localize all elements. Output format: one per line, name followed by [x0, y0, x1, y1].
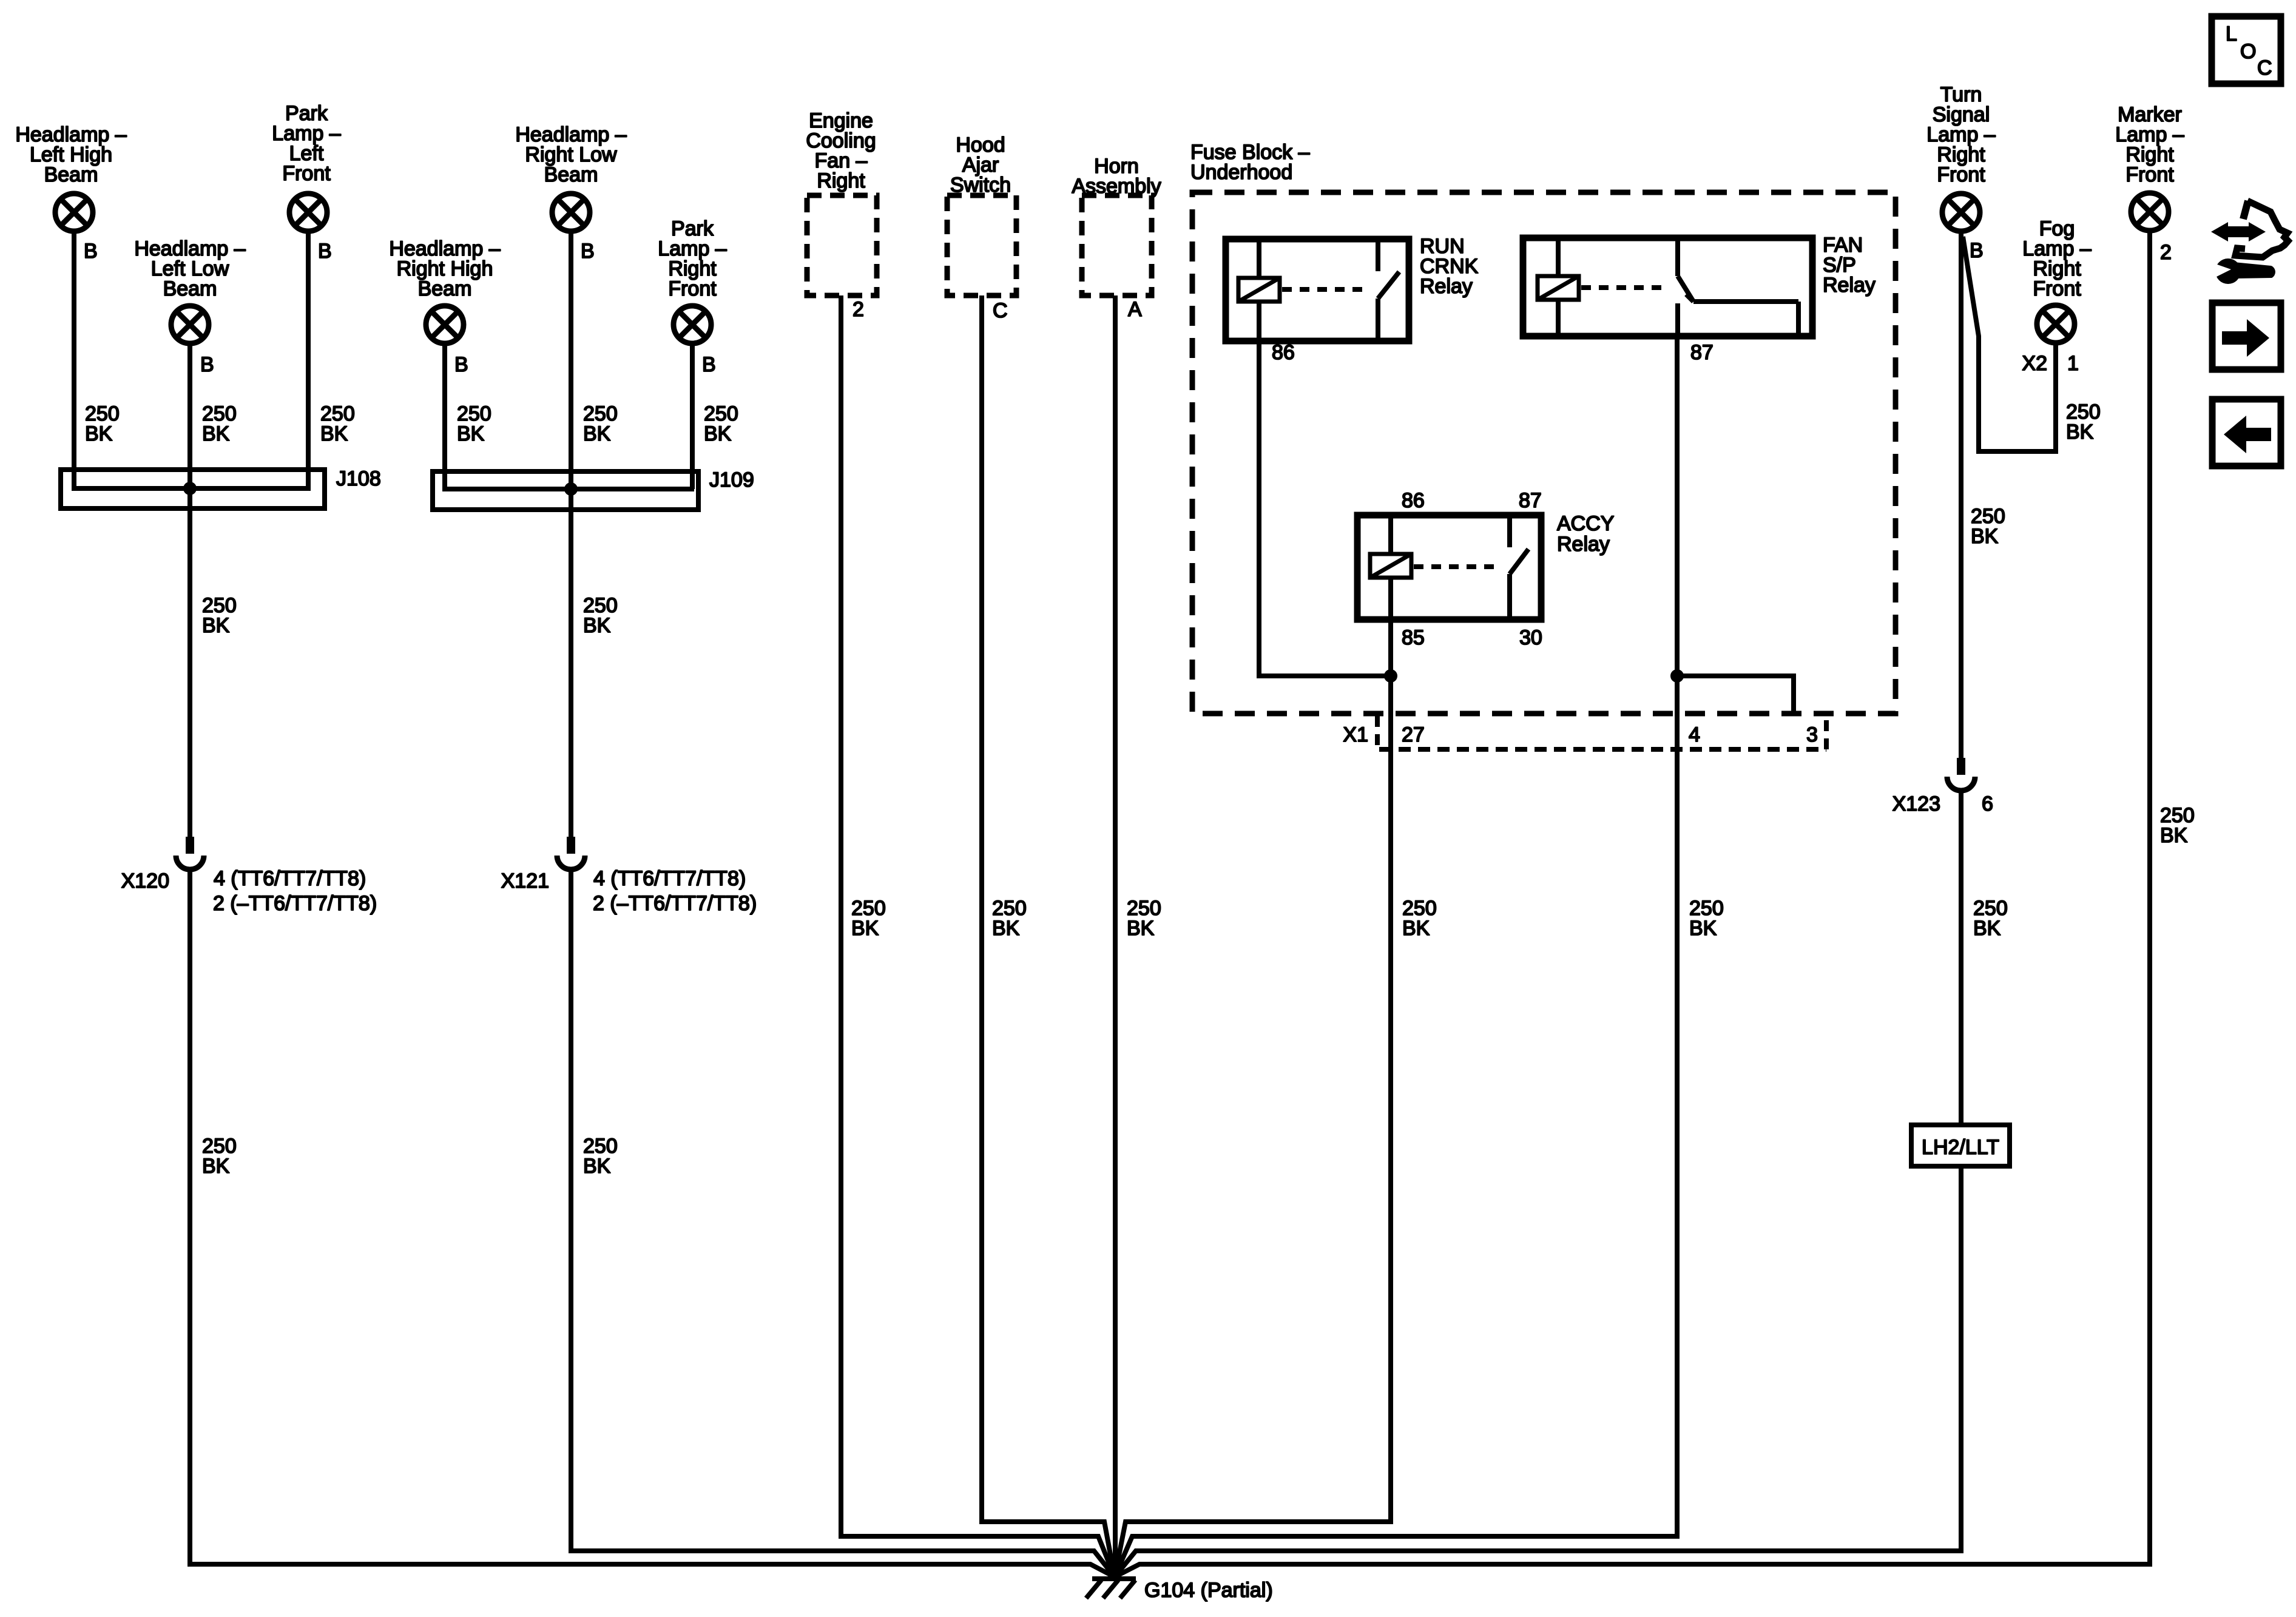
component box: Engine Cooling Fan - Right [806, 109, 877, 295]
wire: fog branch from pin B [1963, 237, 2056, 451]
connector X121 [501, 837, 585, 893]
svg-text:Right: Right [817, 169, 865, 192]
svg-text:6: 6 [1982, 792, 1993, 815]
pin B of Headlamp - Right High Beam [454, 353, 468, 376]
wire: J108 to connector X120 [187, 488, 192, 837]
wire: Headlamp LH-beam to J108 [72, 231, 76, 488]
svg-text:BK: BK [583, 1155, 611, 1178]
svg-text:BK: BK [1127, 917, 1155, 940]
wire: branch to X1 pin 3 [1677, 676, 1794, 714]
connector X1 (dashed) [1343, 716, 1826, 749]
svg-text:2: 2 [853, 298, 864, 321]
wire label 250 BK (horn) [1127, 897, 1161, 940]
svg-text:B: B [1970, 239, 1984, 262]
wire: Horn Assembly to ground G104 [1113, 295, 1118, 1577]
svg-text:Front: Front [668, 277, 717, 300]
svg-text:Front: Front [2033, 277, 2081, 300]
relay: ACCY Relay [1357, 512, 1614, 619]
wire: X123 to LH2/LLT option box [1959, 792, 1963, 1125]
pin C of Hood Ajar Switch [993, 299, 1008, 322]
svg-text:Beam: Beam [44, 163, 98, 186]
pin B of Headlamp - Left Low Beam [200, 353, 214, 376]
wire label 250 BK (HL-RL) [583, 402, 618, 445]
lamp: Park Lamp - Left Front [272, 102, 340, 231]
pin 4 of X1 [1689, 723, 1700, 746]
svg-text:BK: BK [583, 614, 611, 637]
lamp: Headlamp - Left High Beam [15, 123, 126, 231]
wire label 250 BK (X1-4) [1689, 897, 1724, 940]
svg-text:Relay: Relay [1823, 274, 1876, 297]
svg-text:Assembly: Assembly [1072, 175, 1161, 198]
svg-text:BK: BK [704, 422, 732, 445]
svg-text:L: L [2226, 22, 2237, 46]
lamp: Fog Lamp - Right Front [2022, 217, 2091, 343]
wire: Park Lamp RF to J109 [690, 343, 695, 489]
svg-text:BK: BK [851, 917, 879, 940]
svg-text:1: 1 [2067, 352, 2079, 375]
connector X120 [121, 837, 204, 893]
connector X123 [1893, 758, 1975, 815]
wire: Turn Signal Lamp pin B to connector X123 [1959, 231, 1963, 758]
wire: Headlamp RH-beam to J109 [442, 343, 447, 489]
svg-text:2 (–TT6/TT7/TT8): 2 (–TT6/TT7/TT8) [593, 892, 757, 915]
svg-text:B: B [318, 240, 332, 263]
wire: X121 to ground G104 [571, 868, 1115, 1577]
lamp: Headlamp - Right High Beam [389, 237, 500, 343]
svg-text:Front: Front [1937, 163, 1985, 186]
svg-text:BK: BK [1689, 917, 1717, 940]
connector X121 pin annotation [593, 867, 757, 915]
junction dot ACCY-85/RUN-86 node [1384, 669, 1397, 683]
pin 30 of ACCY Relay [1519, 626, 1542, 649]
svg-text:BK: BK [202, 1155, 230, 1178]
wire: ACCY pin 85 to node [1388, 619, 1393, 676]
wire label 250 BK (engine fan) [851, 897, 886, 940]
component box: Fuse Block - Underhood (dashed outline) [1190, 141, 1896, 714]
pin B of Park Lamp - Left Front [318, 240, 332, 263]
lamp: Park Lamp - Right Front [658, 217, 726, 343]
svg-text:Switch: Switch [950, 174, 1011, 197]
connector X2 pin 1 of Fog Lamp [2022, 352, 2079, 375]
wire label 250 BK (J109 out upper) [583, 594, 618, 637]
svg-text:X1: X1 [1343, 723, 1368, 746]
svg-text:BK: BK [457, 422, 485, 445]
svg-text:BK: BK [2160, 824, 2188, 847]
wire label 250 BK (J109 out lower) [583, 1135, 618, 1178]
wire label 250 BK (turn upper) [1971, 505, 2005, 548]
svg-text:4 (TT6/TT7/TT8): 4 (TT6/TT7/TT8) [593, 867, 746, 890]
splice J108 [61, 467, 381, 508]
svg-text:A: A [1128, 298, 1142, 321]
splice J109 [433, 468, 754, 510]
wire: Park Lamp LF to J108 [306, 231, 311, 488]
svg-text:LH2/LLT: LH2/LLT [1922, 1136, 1999, 1159]
svg-text:X123: X123 [1893, 792, 1940, 815]
wire label 250 BK (HL-RH) [457, 402, 491, 445]
svg-text:4: 4 [1689, 723, 1700, 746]
wire label 250 BK (X1-27) [1402, 897, 1437, 940]
wire: J109 to connector X121 [569, 489, 573, 837]
svg-text:Underhood: Underhood [1190, 161, 1292, 184]
legend: forward arrow box [2212, 303, 2281, 370]
pin B of Turn Signal Lamp - Right Front [1970, 239, 1984, 262]
junction dot on FAN S/P pin-87 wire [1670, 669, 1684, 683]
svg-text:B: B [702, 353, 716, 376]
wire label 250 BK (J108 out lower) [202, 1135, 237, 1178]
lamp: Headlamp - Right Low Beam [515, 123, 626, 231]
lamp: Turn Signal Lamp - Right Front [1926, 83, 1995, 231]
wire: Headlamp RL-beam to J109 [569, 231, 573, 489]
wire label 250 BK (PL-LF) [320, 402, 355, 445]
svg-text:BK: BK [992, 917, 1020, 940]
wire: X1 pin 4 to ground G104 [1115, 676, 1677, 1577]
pin 27 of X1 [1402, 723, 1425, 746]
wire label 250 BK (hood ajar) [992, 897, 1027, 940]
svg-text:Beam: Beam [418, 277, 472, 300]
pin 3 of X1 [1806, 723, 1818, 746]
pin B of Park Lamp - Right Front [702, 353, 716, 376]
svg-text:BK: BK [2066, 420, 2094, 444]
svg-text:BK: BK [320, 422, 348, 445]
wire: Headlamp LL-beam to J108 [187, 343, 192, 488]
option box LH2/LLT [1911, 1125, 2010, 1166]
wire label 250 BK (HL-LL) [202, 402, 237, 445]
svg-text:BK: BK [85, 422, 113, 445]
wire: Marker Lamp pin 2 to ground G104 [1115, 231, 2150, 1577]
svg-text:Front: Front [282, 162, 331, 185]
svg-text:Front: Front [2125, 163, 2174, 186]
svg-text:X121: X121 [501, 869, 549, 893]
svg-text:C: C [993, 299, 1008, 322]
pin A of Horn Assembly [1128, 298, 1142, 321]
junction dot J109 [564, 482, 578, 496]
wire label 250 BK (PL-RF) [704, 402, 738, 445]
lamp: Headlamp - Left Low Beam [134, 237, 245, 343]
pin B of Headlamp - Right Low Beam [581, 240, 595, 263]
svg-text:85: 85 [1402, 626, 1425, 649]
svg-text:C: C [2257, 56, 2272, 79]
pin 86 of ACCY Relay [1402, 489, 1425, 512]
relay: FAN S/P Relay [1523, 234, 1876, 336]
wire: X1 pin 27 to ground G104 [1115, 676, 1391, 1577]
svg-text:O: O [2240, 40, 2256, 63]
pin 87 of FAN S/P Relay [1690, 341, 1714, 364]
svg-text:BK: BK [1971, 525, 1999, 548]
svg-text:J109: J109 [709, 468, 754, 491]
svg-text:Beam: Beam [163, 277, 217, 300]
wire: FAN S/P Relay pin 87 down to X1 pin 4 [1675, 336, 1680, 676]
svg-text:4 (TT6/TT7/TT8): 4 (TT6/TT7/TT8) [214, 867, 366, 890]
wire: LH2/LLT to ground G104 [1115, 1166, 1961, 1577]
wire label 250 BK (J108 out upper) [202, 594, 237, 637]
svg-text:BK: BK [202, 422, 230, 445]
svg-text:86: 86 [1272, 341, 1295, 364]
svg-text:X120: X120 [121, 869, 169, 893]
ground label G104 (Partial) [1144, 1579, 1273, 1602]
pin 86 of RUN CRNK Relay [1272, 341, 1295, 364]
svg-text:Beam: Beam [544, 163, 598, 186]
svg-text:87: 87 [1690, 341, 1714, 364]
svg-text:BK: BK [1973, 917, 2001, 940]
wire label 250 BK (HL-LH) [85, 402, 120, 445]
svg-text:Relay: Relay [1420, 275, 1473, 298]
component box: Horn Assembly [1072, 155, 1161, 295]
legend: back arrow box [2212, 399, 2281, 466]
svg-text:Relay: Relay [1557, 533, 1610, 556]
pin B of Headlamp - Left High Beam [84, 240, 98, 263]
svg-text:87: 87 [1519, 489, 1542, 512]
svg-text:G104 (Partial): G104 (Partial) [1144, 1579, 1273, 1602]
lamp: Marker Lamp - Right Front [2115, 103, 2184, 231]
wire: RUN CRNK Relay pin 86 to ACCY pin 85 node [1259, 341, 1391, 676]
pin 6 of X123 [1982, 792, 1993, 815]
svg-text:ACCY: ACCY [1557, 512, 1614, 535]
svg-text:2: 2 [2160, 241, 2172, 264]
wire: Hood Ajar Switch to ground G104 [982, 295, 1115, 1577]
component box: Hood Ajar Switch [947, 133, 1016, 295]
pin 2 of Engine Cooling Fan [853, 298, 864, 321]
svg-text:86: 86 [1402, 489, 1425, 512]
legend: service vehicle icon (outline, double arrow, wrench) [2210, 201, 2288, 284]
wire: X120 to ground G104 [190, 868, 1115, 1577]
svg-text:B: B [200, 353, 214, 376]
pin 2 of Marker Lamp [2160, 241, 2172, 264]
wire label 250 BK (marker) [2160, 804, 2195, 847]
wire label 250 BK (turn lower) [1973, 897, 2008, 940]
svg-text:BK: BK [202, 614, 230, 637]
svg-text:3: 3 [1806, 723, 1818, 746]
pin 85 of ACCY Relay [1402, 626, 1425, 649]
ground G104 symbol [1086, 1579, 1136, 1598]
svg-text:30: 30 [1519, 626, 1542, 649]
svg-text:BK: BK [1402, 917, 1430, 940]
wire: Engine Cooling Fan to ground G104 [841, 295, 1115, 1577]
svg-text:BK: BK [583, 422, 611, 445]
svg-text:J108: J108 [336, 467, 381, 490]
wire label 250 BK (fog) [2066, 400, 2101, 444]
svg-text:B: B [454, 353, 468, 376]
junction dot J108 [183, 482, 197, 495]
svg-text:B: B [581, 240, 595, 263]
svg-text:2 (–TT6/TT7/TT8): 2 (–TT6/TT7/TT8) [213, 892, 377, 915]
svg-text:X2: X2 [2022, 352, 2047, 375]
legend: LOC box [2212, 16, 2281, 84]
svg-text:27: 27 [1402, 723, 1425, 746]
pin 87 of ACCY Relay [1519, 489, 1542, 512]
relay: RUN CRNK Relay [1226, 235, 1479, 341]
svg-text:B: B [84, 240, 98, 263]
connector X120 pin annotation [213, 867, 377, 915]
